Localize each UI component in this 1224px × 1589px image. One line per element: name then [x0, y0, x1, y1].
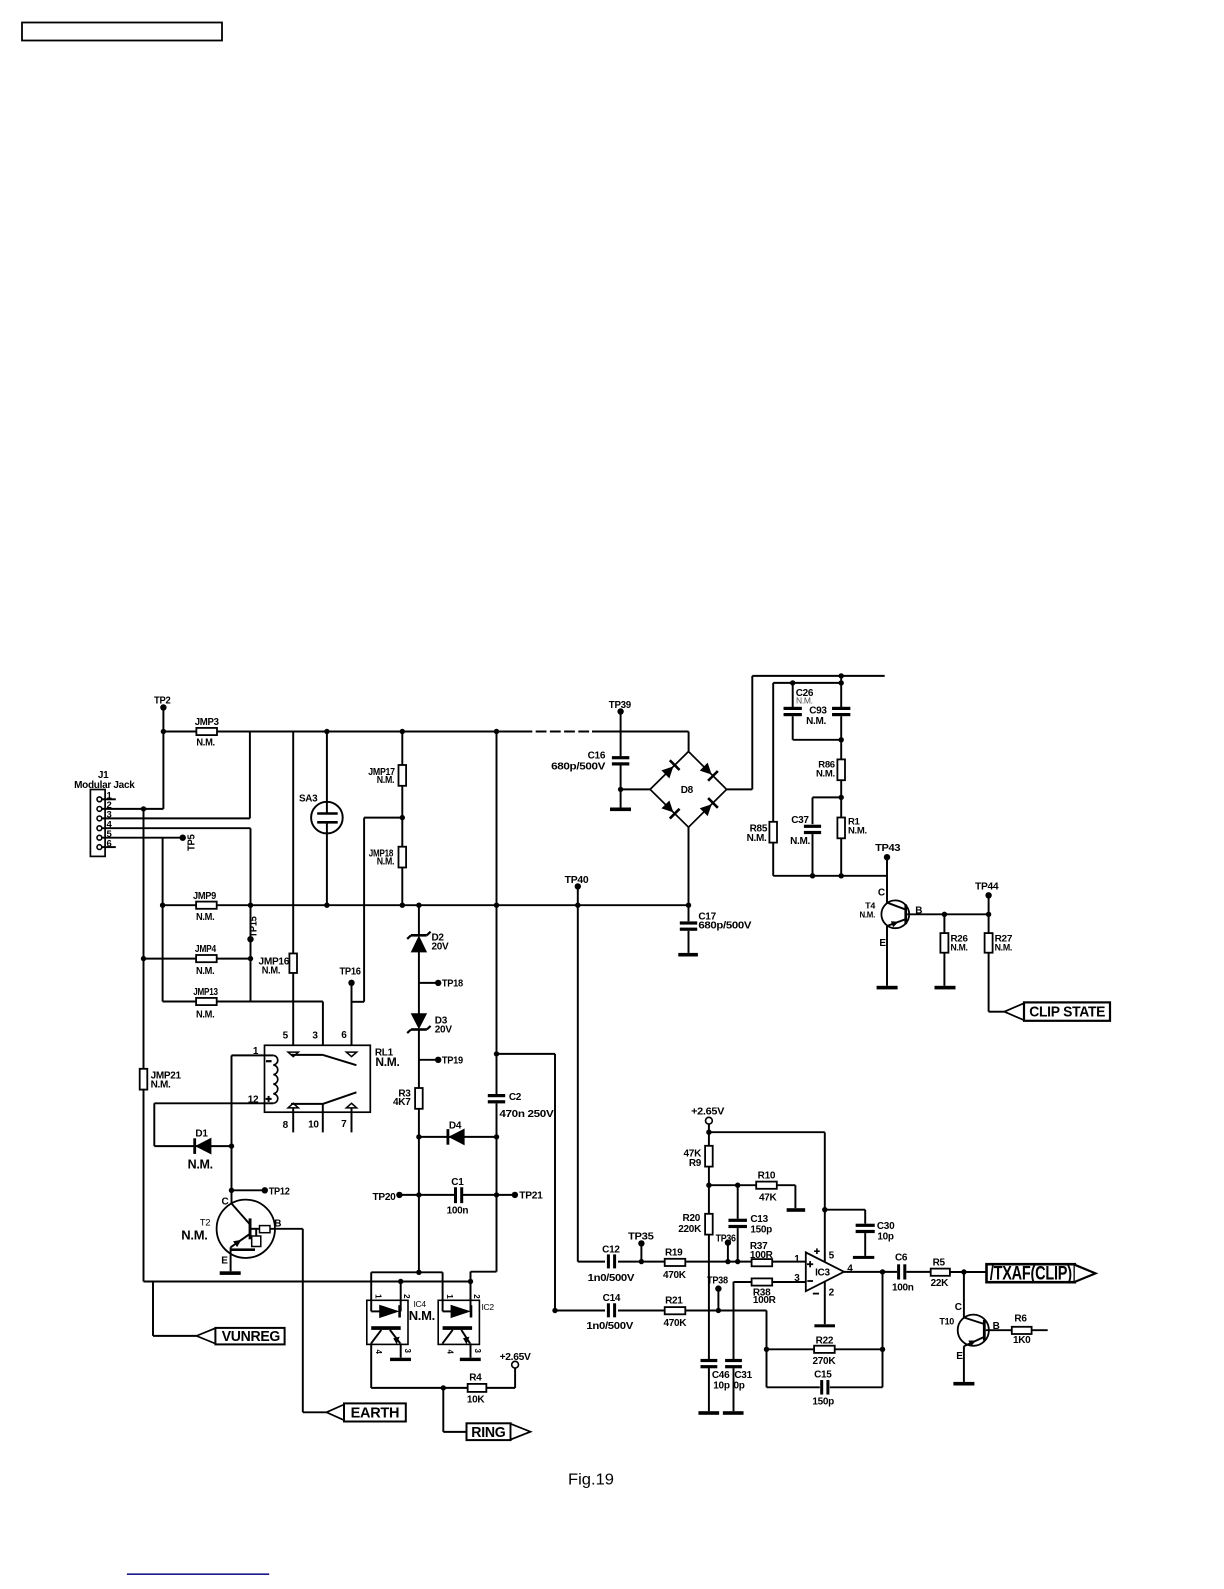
svg-text:R6: R6	[1014, 1313, 1027, 1324]
svg-text:C: C	[878, 888, 885, 899]
svg-text:100n: 100n	[447, 1206, 469, 1217]
svg-text:N.M.: N.M.	[196, 1009, 215, 1020]
svg-text:TP39: TP39	[609, 700, 632, 711]
svg-text:1: 1	[794, 1254, 800, 1265]
svg-text:100R: 100R	[753, 1295, 777, 1306]
svg-text:CLIP STATE: CLIP STATE	[1029, 1004, 1105, 1021]
svg-text:JMP13: JMP13	[193, 987, 218, 998]
svg-text:TP44: TP44	[975, 882, 999, 893]
svg-text:C31: C31	[734, 1370, 752, 1381]
svg-text:100R: 100R	[750, 1250, 774, 1261]
svg-text:C46: C46	[712, 1370, 730, 1381]
svg-text:N.M.: N.M.	[995, 943, 1013, 954]
svg-text:JMP4: JMP4	[195, 944, 217, 955]
svg-text:R22: R22	[816, 1336, 834, 1347]
svg-text:470K: 470K	[663, 1318, 687, 1329]
svg-text:270K: 270K	[813, 1356, 837, 1367]
svg-text:+2.65V: +2.65V	[500, 1352, 532, 1363]
svg-text:C30: C30	[877, 1221, 895, 1232]
svg-text:1: 1	[253, 1046, 259, 1057]
svg-text:T10: T10	[939, 1317, 954, 1327]
svg-text:0p: 0p	[734, 1381, 745, 1392]
svg-text:5: 5	[283, 1031, 289, 1042]
svg-text:C15: C15	[814, 1369, 832, 1380]
svg-text:C12: C12	[602, 1245, 620, 1256]
svg-text:TP20: TP20	[373, 1192, 397, 1203]
svg-text:N.M.: N.M.	[860, 909, 876, 919]
svg-text:IC2: IC2	[482, 1302, 495, 1312]
svg-text:C16: C16	[588, 750, 606, 761]
svg-text:R5: R5	[933, 1258, 946, 1269]
svg-text:N.M.: N.M.	[377, 775, 395, 786]
svg-text:20V: 20V	[432, 942, 450, 953]
svg-text:150p: 150p	[750, 1225, 772, 1236]
svg-text:150p: 150p	[812, 1397, 834, 1408]
svg-text:TP12: TP12	[269, 1186, 291, 1197]
svg-text:Fig.19: Fig.19	[568, 1471, 614, 1488]
svg-text:1n0/500V: 1n0/500V	[588, 1273, 635, 1284]
svg-text:D8: D8	[681, 785, 694, 796]
svg-text:N.M.: N.M.	[196, 912, 215, 923]
svg-text:10K: 10K	[467, 1395, 486, 1406]
svg-text:VUNREG: VUNREG	[222, 1329, 280, 1345]
svg-text:C14: C14	[603, 1293, 621, 1304]
svg-text:N.M.: N.M.	[816, 768, 835, 779]
svg-text:R9: R9	[689, 1158, 702, 1169]
svg-text:5: 5	[829, 1251, 835, 1262]
svg-text:470K: 470K	[663, 1270, 687, 1281]
svg-text:N.M.: N.M.	[377, 857, 395, 868]
svg-text:N.M.: N.M.	[181, 1228, 207, 1243]
svg-text:D4: D4	[449, 1120, 462, 1131]
svg-text:C93: C93	[809, 706, 827, 717]
svg-text:470n 250V: 470n 250V	[499, 1109, 554, 1120]
svg-text:10p: 10p	[713, 1381, 730, 1392]
svg-text:N.M.: N.M.	[196, 738, 215, 749]
svg-text:N.M.: N.M.	[409, 1308, 435, 1323]
svg-text:1n0/500V: 1n0/500V	[586, 1321, 633, 1332]
svg-text:EARTH: EARTH	[351, 1404, 400, 1421]
svg-text:C: C	[222, 1196, 229, 1207]
svg-text:100n: 100n	[892, 1282, 914, 1293]
svg-text:IC3: IC3	[815, 1268, 830, 1279]
svg-text:22K: 22K	[931, 1278, 950, 1289]
svg-text:E: E	[956, 1351, 963, 1362]
svg-text:R4: R4	[469, 1372, 482, 1383]
svg-text:TP21: TP21	[519, 1190, 543, 1201]
svg-text:47K: 47K	[759, 1193, 778, 1204]
svg-text:N.M.: N.M.	[796, 695, 813, 705]
svg-text:C2: C2	[509, 1092, 522, 1103]
svg-text:10p: 10p	[877, 1232, 894, 1243]
svg-text:TP19: TP19	[442, 1055, 464, 1066]
svg-text:4K7: 4K7	[393, 1097, 411, 1108]
svg-text:N.M.: N.M.	[951, 943, 968, 954]
svg-text:TP5: TP5	[187, 834, 198, 851]
svg-text:680p/500V: 680p/500V	[551, 761, 606, 772]
svg-text:1K0: 1K0	[1013, 1335, 1031, 1346]
svg-text:6: 6	[107, 838, 112, 849]
svg-text:6: 6	[341, 1030, 347, 1041]
svg-text:N.M.: N.M.	[375, 1055, 399, 1069]
svg-text:D1: D1	[195, 1128, 208, 1139]
svg-text:7: 7	[341, 1119, 347, 1130]
svg-text:E: E	[879, 938, 886, 949]
svg-text:N.M.: N.M.	[806, 716, 826, 727]
svg-text:TP38: TP38	[707, 1275, 728, 1286]
svg-text:10: 10	[308, 1120, 319, 1131]
svg-text:N.M.: N.M.	[790, 836, 810, 847]
svg-text:JMP9: JMP9	[193, 891, 217, 902]
svg-text:/TXAF(CLIP): /TXAF(CLIP)	[990, 1264, 1072, 1285]
svg-text:3: 3	[312, 1031, 318, 1042]
svg-text:SA3: SA3	[299, 793, 318, 804]
svg-text:+2.65V: +2.65V	[691, 1106, 725, 1117]
svg-text:N.M.: N.M.	[196, 966, 215, 977]
svg-text:220K: 220K	[678, 1224, 702, 1235]
svg-text:8: 8	[283, 1120, 289, 1131]
svg-text:N.M.: N.M.	[848, 825, 867, 836]
svg-text:TP43: TP43	[875, 843, 901, 854]
svg-text:680p/500V: 680p/500V	[698, 921, 751, 932]
svg-text:R19: R19	[665, 1248, 683, 1259]
svg-text:R20: R20	[683, 1213, 701, 1224]
svg-text:TP18: TP18	[442, 979, 464, 990]
svg-text:2: 2	[829, 1287, 835, 1298]
svg-text:TP2: TP2	[154, 696, 171, 707]
svg-text:C1: C1	[451, 1177, 464, 1188]
svg-text:3: 3	[794, 1273, 800, 1284]
svg-text:R10: R10	[758, 1171, 776, 1182]
svg-text:C37: C37	[791, 815, 809, 826]
svg-text:TP36: TP36	[716, 1233, 737, 1244]
svg-text:R21: R21	[665, 1296, 683, 1307]
svg-text:N.M.: N.M.	[151, 1079, 171, 1090]
svg-text:N.M.: N.M.	[188, 1157, 213, 1171]
svg-text:C6: C6	[895, 1253, 908, 1264]
svg-text:N.M.: N.M.	[747, 833, 767, 844]
svg-text:RING: RING	[471, 1424, 505, 1441]
svg-text:TP16: TP16	[340, 967, 362, 978]
svg-text:E: E	[221, 1255, 228, 1266]
svg-text:TP40: TP40	[565, 875, 589, 886]
svg-text:TP15: TP15	[249, 916, 260, 938]
svg-text:20V: 20V	[435, 1025, 453, 1036]
svg-text:C: C	[955, 1302, 962, 1313]
svg-text:TP35: TP35	[628, 1232, 654, 1243]
svg-text:JMP3: JMP3	[195, 717, 220, 728]
svg-text:N.M.: N.M.	[262, 966, 281, 977]
